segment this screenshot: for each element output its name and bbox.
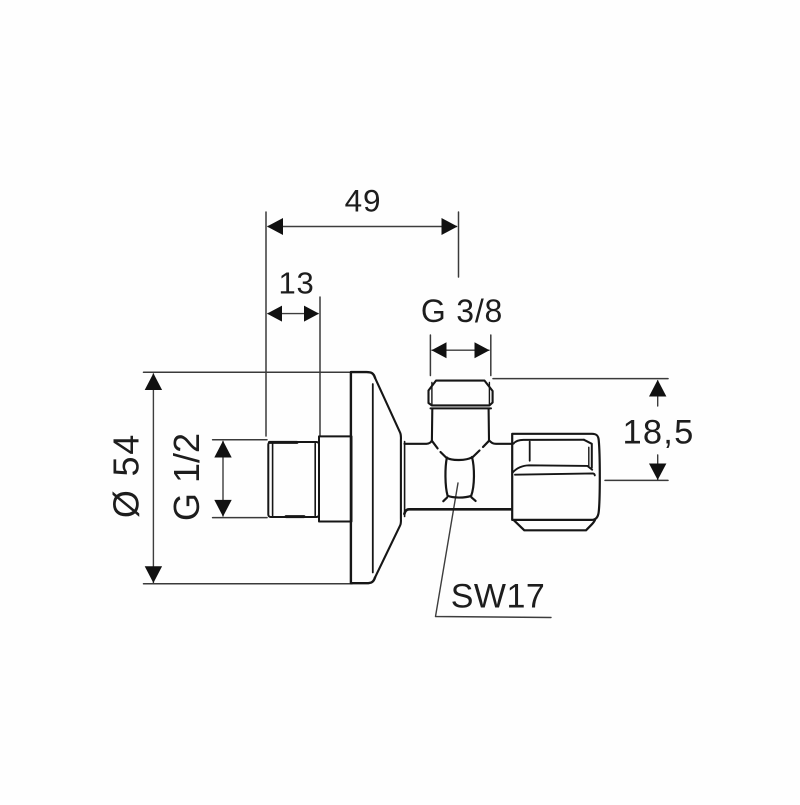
cone neck inner line [404,442,406,517]
dimension 13 line [268,313,318,315]
G 1/2 thread relief line left [272,444,274,516]
dimension diameter 54 arrow up [145,373,162,390]
svg-text:18,5: 18,5 [623,414,695,452]
dimension 49 arrow left [267,218,283,235]
dimension 18,5 arrow up [649,380,666,397]
G 3/8 thread relief right [488,383,490,406]
SW17 hex barrel top edge [447,457,472,460]
nut chamfer band upper line [513,465,592,472]
G 3/8 male thread outline [429,381,493,406]
dimension 49 arrow right [442,218,458,235]
svg-text:Ø 54: Ø 54 [106,433,147,518]
dimension G 3/8 arrow left [432,342,447,358]
collar behind rosette [319,436,352,521]
G 1/2 thread crest mark bottom [286,515,304,518]
SW17 hex barrel left edge [445,458,447,496]
dimension 13 extension line right [319,297,321,436]
G 1/2 male thread outline [268,442,319,517]
dimension G 1/2 extension line bottom [213,517,267,519]
nut top facet line [514,440,585,444]
G 3/8 thread bottom second line [431,407,492,409]
dimension G 3/8 line [432,349,489,351]
SW17 barrel corner tick bottom-right [471,497,475,501]
dimension G 1/2 line [222,442,224,517]
svg-text:13: 13 [278,266,314,301]
svg-text:SW17: SW17 [451,578,546,616]
outlet nut outline [512,434,600,520]
nut facet vertical left [529,442,531,461]
valve body bottom line [404,509,511,514]
dimension diameter 54 extension line top [144,371,353,373]
dimension 18,5 extension line bottom [605,479,668,481]
G 1/2 thread crest mark top [270,441,298,444]
SW17 hex barrel bottom edge [448,496,472,498]
rosette rim outline [351,372,375,583]
right shoulder to outlet [489,441,511,444]
G 3/8 riser wall right [488,409,490,440]
rosette rim inner edge [372,384,374,573]
dimension 49 extension line left [265,212,267,436]
G 1/2 thread relief line right [314,444,316,516]
dimension G 1/2 extension line top [213,439,267,441]
SW17 leader line [436,483,552,618]
valve body top line [405,441,432,444]
funnel left slant [432,441,447,458]
dimension diameter 54 line [152,374,154,583]
nut chamfer band lower line [515,473,595,475]
G 3/8 thread relief left [431,383,433,406]
nut facet corner diagonal and right edge [584,440,592,468]
dimension G 3/8 extension line left [429,335,431,376]
outlet nut bottom skirt [514,520,595,530]
dimension diameter 54 arrow down [145,566,162,583]
funnel right slant [472,441,489,458]
SW17 hex barrel right edge [471,457,474,496]
svg-text:G 1/2: G 1/2 [166,433,207,521]
dimension 18,5 extension line top [493,378,668,380]
dimension 18,5 arrow down [649,464,666,481]
rosette cone top slant and neck outer line and bottom slant [375,378,401,578]
dimension 18,5 line upper [657,381,659,406]
dimension G 1/2 arrow down [214,500,231,517]
SW17 barrel corner tick bottom-left [443,498,447,502]
dimension G 3/8 arrow right [475,342,490,358]
G 3/8 riser wall left [431,409,433,441]
dimension 18,5 line lower [657,455,659,480]
dimension diameter 54 extension line bottom [144,583,353,585]
nut facet vertical right inner [588,447,590,466]
dimension G 3/8 extension line right [490,335,492,376]
dimension 13 arrow right [304,306,319,322]
svg-text:G 3/8: G 3/8 [421,293,503,329]
svg-text:49: 49 [345,183,382,219]
dimension 49 extension line right [458,212,460,277]
dimension 49 line [268,226,457,228]
dimension 13 arrow left [267,306,282,322]
dimension G 1/2 arrow up [214,441,231,458]
